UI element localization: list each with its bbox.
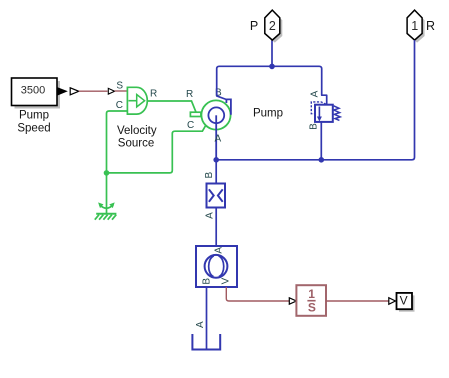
svg-text:A: A	[215, 134, 222, 145]
svg-text:A: A	[204, 212, 215, 219]
svg-text:S: S	[308, 301, 316, 315]
svg-text:C: C	[187, 120, 194, 131]
svg-text:S: S	[116, 80, 123, 91]
svg-text:B: B	[202, 278, 213, 285]
svg-text:2: 2	[269, 19, 276, 33]
svg-text:R: R	[186, 89, 193, 100]
svg-text:C: C	[116, 100, 123, 111]
svg-text:B: B	[309, 123, 320, 130]
svg-text:A: A	[309, 90, 320, 97]
svg-text:1: 1	[411, 19, 418, 33]
svg-text:A: A	[214, 247, 225, 254]
svg-text:Pump: Pump	[253, 108, 283, 120]
svg-text:1: 1	[308, 287, 315, 301]
svg-text:Source: Source	[118, 137, 154, 149]
svg-text:R: R	[150, 88, 157, 99]
svg-text:Pump: Pump	[19, 110, 49, 122]
svg-text:Velocity: Velocity	[117, 125, 157, 137]
svg-text:3500: 3500	[21, 85, 45, 97]
svg-text:V: V	[220, 277, 231, 284]
svg-text:P: P	[250, 19, 258, 33]
svg-text:R: R	[426, 19, 435, 33]
svg-text:A: A	[195, 321, 206, 328]
svg-text:Speed: Speed	[17, 123, 50, 135]
svg-text:V: V	[400, 294, 408, 308]
svg-text:B: B	[204, 172, 215, 179]
